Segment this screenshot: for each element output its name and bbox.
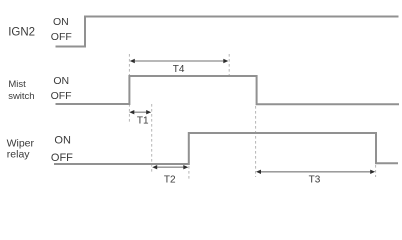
- svg-text:OFF: OFF: [51, 152, 73, 164]
- svg-text:T4: T4: [173, 64, 185, 75]
- svg-text:switch: switch: [8, 91, 34, 102]
- svg-text:OFF: OFF: [51, 31, 72, 43]
- svg-text:OFF: OFF: [51, 90, 72, 102]
- svg-text:ON: ON: [53, 16, 69, 28]
- svg-text:ON: ON: [53, 75, 69, 87]
- svg-text:T1: T1: [137, 115, 149, 126]
- svg-text:T3: T3: [309, 175, 321, 186]
- svg-text:relay: relay: [7, 149, 31, 161]
- svg-text:ON: ON: [54, 135, 71, 147]
- svg-text:T2: T2: [164, 175, 176, 186]
- svg-text:Wiper: Wiper: [7, 137, 35, 149]
- svg-text:Mist: Mist: [8, 79, 26, 90]
- svg-text:IGN2: IGN2: [8, 26, 35, 38]
